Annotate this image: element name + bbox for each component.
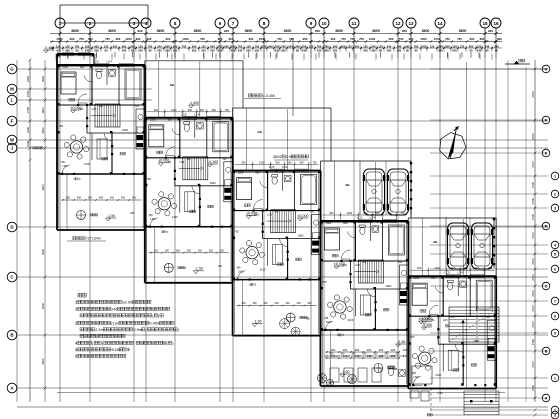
svg-text:M1: M1	[99, 104, 103, 108]
svg-text:900: 900	[166, 37, 171, 41]
svg-text:750: 750	[200, 37, 205, 41]
svg-text:300: 300	[286, 302, 291, 305]
svg-text:900: 900	[218, 37, 223, 41]
svg-text:C: C	[545, 284, 548, 288]
svg-text:120: 120	[452, 45, 457, 49]
svg-text:760: 760	[302, 45, 307, 49]
svg-text:360: 360	[324, 48, 329, 52]
svg-text:1800: 1800	[386, 284, 392, 288]
svg-text:90: 90	[406, 48, 409, 52]
svg-text:A: A	[545, 396, 548, 400]
svg-text:7: 7	[232, 21, 235, 26]
svg-text:900: 900	[333, 45, 338, 49]
svg-text:360: 360	[94, 48, 99, 52]
svg-text:LM1: LM1	[150, 217, 156, 221]
svg-text:900: 900	[165, 45, 170, 49]
svg-text:5: 5	[554, 252, 556, 256]
svg-text:300: 300	[395, 353, 400, 356]
svg-text:120: 120	[138, 45, 143, 49]
svg-text:3900: 3900	[41, 75, 45, 82]
svg-text:M2: M2	[311, 210, 315, 214]
svg-text:760: 760	[275, 45, 280, 49]
svg-text:LC4: LC4	[370, 216, 376, 220]
svg-text:240: 240	[157, 48, 162, 52]
svg-text:-1.50: -1.50	[107, 214, 115, 218]
svg-text:900: 900	[224, 29, 229, 33]
svg-text:3: 3	[75, 322, 77, 326]
svg-text:600: 600	[389, 37, 394, 41]
svg-text:760: 760	[75, 45, 80, 49]
svg-text:LC4: LC4	[106, 60, 112, 64]
svg-text:240: 240	[130, 45, 135, 49]
svg-text:900: 900	[147, 37, 152, 41]
svg-text:300: 300	[154, 249, 159, 252]
svg-text:1500: 1500	[259, 37, 266, 41]
svg-text:360: 360	[387, 48, 392, 52]
svg-text:2: 2	[554, 192, 556, 196]
svg-text:1800: 1800	[122, 128, 128, 132]
svg-text:=-0.450: =-0.450	[263, 94, 275, 98]
svg-text:C+D: C+D	[286, 155, 294, 159]
svg-text:900: 900	[188, 109, 193, 112]
svg-text:AB: AB	[130, 211, 134, 215]
svg-text:900: 900	[268, 45, 273, 49]
svg-text:600: 600	[249, 37, 254, 41]
svg-text:-0.100: -0.100	[208, 160, 218, 164]
svg-text:240: 240	[403, 354, 408, 358]
svg-text:900: 900	[154, 109, 159, 112]
svg-text:M1: M1	[187, 157, 191, 161]
svg-text:1:20: 1:20	[437, 391, 443, 395]
svg-text:360: 360	[371, 48, 376, 52]
svg-text:300: 300	[297, 302, 302, 305]
svg-text:90: 90	[486, 48, 489, 52]
svg-text:2700: 2700	[531, 161, 535, 168]
svg-text:M2: M2	[399, 260, 403, 264]
svg-text:LC4: LC4	[282, 165, 288, 169]
svg-text:=271.64m: =271.64m	[86, 237, 101, 241]
svg-text:240: 240	[452, 48, 457, 52]
svg-text:120: 120	[201, 45, 206, 49]
svg-text:90: 90	[470, 48, 473, 52]
svg-text:1500: 1500	[56, 37, 63, 41]
svg-text:3600: 3600	[372, 29, 380, 33]
svg-text:LM1: LM1	[78, 107, 84, 111]
svg-text:1: 1	[554, 376, 556, 380]
svg-text:±0.00: ±0.00	[123, 301, 132, 305]
svg-text:750: 750	[445, 37, 450, 41]
svg-text:900: 900	[136, 37, 141, 41]
svg-text:750: 750	[359, 37, 364, 41]
svg-text:120: 120	[363, 45, 368, 49]
svg-text:750: 750	[277, 37, 282, 41]
svg-text:120: 120	[347, 45, 352, 49]
svg-text:600: 600	[88, 37, 93, 41]
svg-text:240: 240	[210, 48, 215, 52]
svg-text:G: G	[545, 67, 548, 71]
svg-text:90: 90	[149, 48, 152, 52]
svg-text:900: 900	[417, 267, 422, 270]
svg-text:900: 900	[255, 170, 260, 174]
svg-text:300: 300	[220, 249, 225, 252]
svg-text:4: 4	[75, 342, 77, 346]
svg-text:240: 240	[295, 45, 300, 49]
svg-text:600: 600	[470, 37, 475, 41]
svg-text:6: 6	[554, 267, 556, 271]
svg-text:M5: M5	[61, 160, 65, 164]
svg-text:900: 900	[113, 45, 118, 49]
svg-text:360: 360	[173, 48, 178, 52]
svg-text:90: 90	[495, 48, 498, 52]
svg-text:10: 10	[321, 21, 327, 26]
svg-text:2700: 2700	[531, 181, 535, 188]
svg-text:9: 9	[310, 21, 313, 26]
svg-text:LM1: LM1	[342, 263, 348, 267]
svg-text:90: 90	[415, 48, 418, 52]
svg-text:600: 600	[200, 109, 205, 112]
svg-text:2700: 2700	[26, 106, 30, 113]
svg-text:M: M	[10, 87, 14, 92]
svg-text:3600: 3600	[459, 29, 467, 33]
svg-text:LC5: LC5	[179, 160, 184, 164]
svg-text:760: 760	[324, 45, 329, 49]
svg-text:240: 240	[85, 48, 90, 52]
svg-text:750: 750	[105, 37, 110, 41]
svg-text:900: 900	[276, 162, 281, 165]
svg-text:300: 300	[209, 249, 214, 252]
svg-text:900: 900	[315, 29, 320, 33]
svg-text:300: 300	[176, 249, 181, 252]
svg-text:M5: M5	[412, 371, 416, 375]
svg-text:7: 7	[554, 299, 556, 303]
svg-text:1200: 1200	[26, 140, 30, 147]
svg-text:14: 14	[437, 21, 443, 26]
svg-text:3600: 3600	[71, 29, 79, 33]
svg-text:300: 300	[88, 197, 93, 200]
svg-text:240: 240	[363, 48, 368, 52]
svg-text:600: 600	[480, 37, 485, 41]
svg-text:3600: 3600	[422, 29, 430, 33]
svg-text:0.9m: 0.9m	[134, 328, 142, 332]
svg-text:M2: M2	[486, 315, 490, 319]
svg-text:1800: 1800	[473, 339, 479, 343]
svg-text:900: 900	[431, 276, 436, 280]
svg-text:240: 240	[355, 354, 360, 358]
svg-text:3900: 3900	[41, 107, 45, 114]
svg-text:AB: AB	[218, 264, 222, 268]
svg-text:2100: 2100	[435, 373, 441, 377]
svg-text:-0.45: -0.45	[397, 340, 405, 344]
svg-text:600: 600	[409, 37, 414, 41]
svg-text:2700: 2700	[531, 232, 535, 239]
svg-text:900: 900	[402, 29, 407, 33]
svg-text:900: 900	[300, 162, 305, 165]
svg-text:240: 240	[343, 354, 348, 358]
svg-text:-0.450: -0.450	[422, 323, 432, 327]
svg-text:2700: 2700	[531, 321, 535, 328]
svg-text:LM1: LM1	[430, 318, 436, 322]
svg-text:760: 760	[218, 45, 223, 49]
svg-text:AB: AB	[306, 317, 310, 321]
svg-text:2700: 2700	[531, 305, 535, 312]
svg-text:900: 900	[488, 29, 493, 33]
svg-text:3900: 3900	[41, 127, 45, 134]
svg-text:900: 900	[331, 348, 336, 352]
svg-text:2700: 2700	[531, 213, 535, 220]
svg-text:1500: 1500	[62, 65, 68, 69]
svg-text:900: 900	[116, 37, 121, 41]
svg-text:760: 760	[238, 45, 243, 49]
svg-text:240: 240	[111, 308, 117, 312]
svg-text:900: 900	[355, 348, 360, 352]
svg-text:300: 300	[165, 249, 170, 252]
svg-text:900: 900	[403, 348, 408, 352]
svg-text:300: 300	[198, 249, 203, 252]
svg-text:300: 300	[384, 353, 389, 356]
svg-text:360: 360	[333, 48, 338, 52]
svg-text:M1: M1	[363, 260, 367, 264]
svg-text:240: 240	[331, 354, 336, 358]
svg-text:2: 2	[554, 408, 556, 412]
svg-text:750: 750	[410, 335, 415, 339]
svg-text:240: 240	[317, 48, 322, 52]
svg-text:F: F	[11, 119, 14, 124]
svg-text:0.45m: 0.45m	[149, 322, 160, 326]
svg-text:750: 750	[350, 37, 355, 41]
svg-text:300: 300	[187, 249, 192, 252]
svg-text:1500: 1500	[326, 221, 332, 225]
svg-text:1500: 1500	[182, 37, 189, 41]
svg-text:240: 240	[231, 45, 236, 49]
svg-text:300: 300	[242, 302, 247, 305]
svg-text:-0.450: -0.450	[44, 46, 54, 50]
svg-text:11: 11	[352, 21, 357, 26]
svg-text:900: 900	[192, 45, 197, 49]
svg-text:LC4: LC4	[194, 112, 200, 116]
svg-text:LC5: LC5	[181, 112, 187, 116]
svg-text:90: 90	[76, 48, 79, 52]
svg-text:240: 240	[387, 45, 392, 49]
svg-text:3300: 3300	[26, 75, 30, 82]
svg-text:B: B	[10, 333, 13, 338]
svg-text:240: 240	[157, 45, 162, 49]
svg-text:3900: 3900	[41, 248, 45, 255]
svg-text:900: 900	[469, 45, 474, 49]
svg-text:300: 300	[66, 197, 71, 200]
svg-text:760: 760	[182, 45, 187, 49]
svg-text:240: 240	[367, 354, 372, 358]
svg-text:240: 240	[438, 48, 443, 52]
svg-text:-1.50: -1.50	[195, 267, 203, 271]
svg-text:120: 120	[430, 45, 435, 49]
svg-text:750: 750	[322, 280, 327, 284]
svg-text:(1)m: (1)m	[111, 322, 119, 326]
svg-text:9: 9	[554, 331, 556, 335]
svg-text:5: 5	[174, 21, 177, 26]
svg-text:3600: 3600	[157, 29, 165, 33]
svg-text:900: 900	[242, 162, 247, 165]
svg-text:750: 750	[225, 109, 230, 112]
svg-text:1800: 1800	[298, 234, 304, 238]
svg-text:900: 900	[80, 65, 85, 69]
svg-text:900: 900	[303, 37, 308, 41]
svg-text:120: 120	[246, 45, 251, 49]
svg-text:2700: 2700	[531, 197, 535, 204]
svg-text:⑧: ⑧	[127, 348, 131, 352]
svg-text:B: B	[545, 349, 548, 353]
svg-text:120: 120	[309, 45, 314, 49]
svg-text:8: 8	[554, 314, 556, 318]
svg-text:900: 900	[70, 37, 75, 41]
svg-text:750: 750	[313, 162, 318, 165]
svg-text:1: 1	[75, 301, 77, 305]
svg-text:1800: 1800	[210, 181, 216, 185]
svg-text:-1.50: -1.50	[253, 319, 261, 323]
svg-text:300: 300	[99, 197, 104, 200]
svg-text:900: 900	[379, 348, 384, 352]
svg-text:760: 760	[281, 45, 286, 49]
svg-text:LM1: LM1	[238, 270, 244, 274]
svg-text:120: 120	[378, 45, 383, 49]
svg-text:240: 240	[262, 45, 267, 49]
svg-text:2100: 2100	[260, 268, 266, 272]
svg-text:760: 760	[317, 45, 322, 49]
svg-text:M2: M2	[135, 104, 139, 108]
svg-text:300: 300	[121, 197, 126, 200]
svg-text:300: 300	[264, 302, 269, 305]
svg-text:240: 240	[371, 45, 376, 49]
svg-text:240: 240	[201, 48, 206, 52]
svg-text:900: 900	[341, 45, 346, 49]
svg-text:3600: 3600	[335, 29, 343, 33]
svg-text:760: 760	[422, 45, 427, 49]
svg-text:2700: 2700	[531, 274, 535, 281]
svg-text:240: 240	[246, 48, 251, 52]
svg-text:3: 3	[554, 206, 556, 210]
svg-text:2700: 2700	[531, 290, 535, 297]
svg-text:240: 240	[122, 48, 127, 52]
svg-text:1200: 1200	[347, 212, 353, 215]
svg-text:760: 760	[414, 45, 419, 49]
svg-text:300: 300	[308, 302, 313, 305]
svg-text:M5: M5	[149, 213, 153, 217]
svg-text:L: L	[11, 98, 14, 103]
svg-text:1200: 1200	[259, 162, 265, 165]
svg-text:15: 15	[482, 21, 488, 26]
svg-text:2700: 2700	[531, 258, 535, 265]
svg-text:2100: 2100	[84, 162, 90, 166]
svg-text:1200: 1200	[125, 37, 132, 41]
svg-text:900: 900	[210, 45, 215, 49]
svg-text:750: 750	[147, 177, 152, 181]
svg-text:120: 120	[65, 45, 70, 49]
svg-text:900: 900	[224, 45, 229, 49]
svg-text:300: 300	[253, 302, 258, 305]
svg-text:2100: 2100	[172, 215, 178, 219]
svg-text:5: 5	[75, 348, 77, 352]
svg-text:380/2: 380/2	[273, 155, 282, 159]
svg-text:750: 750	[234, 230, 239, 234]
svg-text:120: 120	[56, 45, 61, 49]
svg-text:M1: M1	[275, 210, 279, 214]
svg-text:3900: 3900	[41, 358, 45, 365]
svg-text:360: 360	[255, 48, 260, 52]
svg-text:120: 120	[85, 45, 90, 49]
svg-text:360: 360	[192, 48, 197, 52]
svg-text:750: 750	[59, 124, 64, 128]
svg-text:16: 16	[493, 21, 499, 26]
svg-text:2700: 2700	[531, 338, 535, 345]
svg-text:1500: 1500	[150, 118, 156, 122]
svg-text:3600: 3600	[245, 29, 253, 33]
svg-text:2700: 2700	[531, 91, 535, 98]
svg-text:3900: 3900	[41, 302, 45, 309]
svg-text:-1.50: -1.50	[341, 370, 349, 374]
svg-text:2: 2	[75, 308, 77, 312]
svg-text:2100: 2100	[348, 318, 354, 322]
svg-text:M2: M2	[223, 157, 227, 161]
svg-text:LM1: LM1	[254, 213, 260, 217]
svg-text:3: 3	[554, 413, 556, 417]
svg-text:600: 600	[331, 37, 336, 41]
svg-text:360: 360	[281, 48, 286, 52]
svg-text:G: G	[10, 67, 14, 72]
svg-text:LC5: LC5	[267, 213, 272, 217]
svg-text:120: 120	[104, 45, 109, 49]
svg-text:LC5: LC5	[443, 318, 448, 322]
svg-text:8: 8	[263, 21, 266, 26]
svg-text:900: 900	[212, 109, 217, 112]
svg-text:1200: 1200	[434, 267, 440, 270]
svg-text:1500: 1500	[420, 37, 427, 41]
svg-text:300: 300	[275, 302, 280, 305]
svg-text:M5: M5	[237, 266, 241, 270]
svg-text:240: 240	[438, 45, 443, 49]
svg-text:300: 300	[110, 197, 115, 200]
svg-text:240: 240	[397, 48, 402, 52]
svg-text:2700: 2700	[531, 384, 535, 391]
svg-text:LC5: LC5	[269, 165, 275, 169]
svg-text:360: 360	[165, 48, 170, 52]
svg-text:900: 900	[329, 212, 334, 215]
svg-text:750: 750	[79, 37, 84, 41]
svg-text:900: 900	[137, 29, 142, 33]
svg-text:240: 240	[485, 45, 490, 49]
svg-text:120: 120	[460, 45, 465, 49]
svg-text:1500: 1500	[434, 37, 441, 41]
svg-text:M1: M1	[450, 315, 454, 319]
svg-text:3600: 3600	[108, 29, 116, 33]
svg-text:2400: 2400	[26, 126, 30, 133]
svg-text:LC4: LC4	[457, 271, 463, 275]
svg-text:760: 760	[255, 45, 260, 49]
svg-text:1500: 1500	[413, 276, 419, 280]
svg-text:D: D	[545, 224, 548, 228]
svg-text:600: 600	[288, 162, 293, 165]
svg-text:240: 240	[379, 354, 384, 358]
svg-text:240: 240	[391, 354, 396, 358]
svg-text:1200: 1200	[369, 37, 376, 41]
svg-text:4: 4	[554, 243, 556, 247]
svg-text:3600: 3600	[284, 29, 292, 33]
svg-text:240: 240	[138, 48, 143, 52]
svg-text:LM1: LM1	[326, 320, 332, 324]
svg-text:1200: 1200	[171, 109, 177, 112]
svg-text:2700: 2700	[531, 133, 535, 140]
svg-text:-1.400: -1.400	[189, 101, 199, 105]
svg-text:13: 13	[408, 21, 414, 26]
svg-text:90: 90	[57, 48, 60, 52]
